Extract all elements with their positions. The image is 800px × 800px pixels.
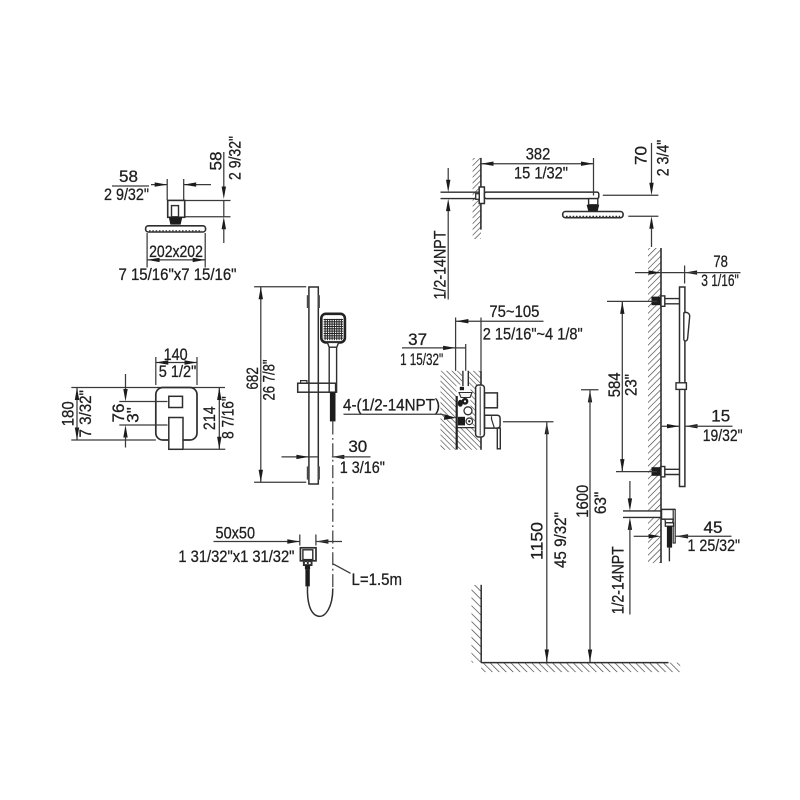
svg-text:58: 58 <box>119 167 138 186</box>
reference line (valve plate bottom) <box>71 439 156 441</box>
valve handle lever (pointing down) <box>497 428 500 449</box>
rain shower head (side view) <box>563 212 623 218</box>
hand shower on bar (side view) <box>684 312 690 341</box>
top bracket of slide bar (side) <box>652 296 680 306</box>
dimension 382 (arm length) <box>481 145 594 196</box>
wall corner at floor (hatched) <box>472 585 482 663</box>
svg-text:2 9/32": 2 9/32" <box>226 136 245 180</box>
elbow hose connector <box>665 519 674 526</box>
svg-text:78: 78 <box>713 252 728 271</box>
label 1/2-14NPT (shower arm thread) <box>430 168 450 300</box>
hose line below elbow <box>668 548 670 562</box>
wall section with concealed valve (hatched) <box>441 371 482 450</box>
svg-text:202x202: 202x202 <box>149 242 203 261</box>
svg-text:4-(1/2-14NPT): 4-(1/2-14NPT) <box>343 396 440 415</box>
valve trim plate (edge-on) <box>476 385 485 437</box>
outlet hose connector <box>304 561 312 566</box>
slide bar (side view) <box>680 287 685 487</box>
dimension 58 vertical (head arm height) <box>185 136 245 243</box>
slide bar (front view) <box>309 287 318 484</box>
label 4-(1/2-14NPT) (valve ports thread) <box>343 396 456 420</box>
svg-text:75~105: 75~105 <box>489 302 539 321</box>
hand shower neck <box>327 342 338 347</box>
hand shower head (front view) <box>321 314 345 343</box>
svg-text:7 3/32": 7 3/32" <box>76 390 95 438</box>
svg-text:382: 382 <box>526 145 551 164</box>
svg-text:2 3/4": 2 3/4" <box>654 140 673 177</box>
svg-text:1 25/32": 1 25/32" <box>688 536 741 555</box>
dimension 214 (plate+handle height) <box>183 388 238 450</box>
dimension 202x202 (head size) <box>119 233 237 284</box>
svg-text:3 1/16": 3 1/16" <box>701 271 739 290</box>
svg-text:5 1/2": 5 1/2" <box>159 362 197 381</box>
hose end fitting (black) <box>305 569 309 586</box>
dimension 584 (bracket spacing) <box>605 301 657 471</box>
dimension 45 (elbow projection) <box>634 518 740 555</box>
svg-text:2 15/16"~4 1/8": 2 15/16"~4 1/8" <box>483 325 583 344</box>
slider bracket (side view) <box>676 383 686 390</box>
label 1/2-14NPT (outlet thread) <box>609 481 633 615</box>
mixer outlet port (front view) <box>169 396 183 407</box>
dimension 1150 (valve height) <box>503 422 570 662</box>
svg-text:180: 180 <box>59 401 78 426</box>
svg-text:214: 214 <box>200 406 219 430</box>
svg-text:30: 30 <box>348 437 367 456</box>
dimension 30 (hose offset) <box>282 437 385 477</box>
svg-text:1 31/32"x1 31/32": 1 31/32"x1 31/32" <box>178 547 294 566</box>
ceiling mount arm of rain shower head <box>168 200 185 217</box>
rain shower head plate (front view) <box>146 226 206 232</box>
mixer handle (front view) <box>169 418 183 450</box>
dimension 180 (plate height) <box>59 388 96 441</box>
dimension 70 (head drop height) <box>603 140 673 247</box>
hand shower hose loop <box>307 586 332 616</box>
dimension 58 horizontal (head arm offset) <box>104 167 211 204</box>
hose end at elbow (black) <box>667 526 672 547</box>
svg-text:58: 58 <box>207 152 226 171</box>
svg-text:50x50: 50x50 <box>216 524 256 543</box>
slider bracket on slide bar <box>298 381 336 393</box>
outlet elbow (side view) <box>662 509 676 543</box>
supply pipe through wall (1/2-14NPT) <box>441 192 480 198</box>
dimension 15 (bar diameter) <box>661 407 743 445</box>
svg-text:23": 23" <box>622 374 641 396</box>
svg-text:19/32": 19/32" <box>703 426 743 445</box>
svg-text:1/2-14NPT: 1/2-14NPT <box>430 231 449 300</box>
svg-text:37: 37 <box>408 330 427 349</box>
wall section (right, side view) <box>646 248 661 563</box>
mixer trim plate (front view) <box>156 388 197 441</box>
svg-text:70: 70 <box>632 146 651 165</box>
svg-text:1600: 1600 <box>573 485 592 518</box>
svg-text:45 9/32": 45 9/32" <box>551 512 570 568</box>
dimension 682 (slide bar length) <box>243 287 306 483</box>
valve handle (side view) <box>485 415 501 428</box>
svg-text:1 3/16": 1 3/16" <box>340 458 385 477</box>
svg-text:8 7/16": 8 7/16" <box>219 396 238 439</box>
valve body cross-section details <box>457 387 475 450</box>
label L=1.5m (hose length) <box>333 564 402 589</box>
bottom bracket of slide bar (side) <box>652 467 680 477</box>
svg-text:63": 63" <box>591 492 610 515</box>
svg-text:2 9/32": 2 9/32" <box>104 185 149 204</box>
hose centerline (dash-dot) <box>332 422 334 589</box>
dimension 76 (port to handle) <box>109 374 168 448</box>
wall section (top right, side view) <box>473 158 481 239</box>
svg-text:L=1.5m: L=1.5m <box>352 570 403 589</box>
hand shower handle tube <box>329 347 336 392</box>
floor line (hatched) <box>481 663 680 673</box>
swivel joint (black) of rain shower head <box>169 217 183 224</box>
extension lines for valve dimensions <box>456 318 481 371</box>
dimension 140 (plate width) <box>156 345 197 385</box>
hose nut (black) <box>305 565 310 569</box>
ball joint of shower arm <box>587 199 600 212</box>
svg-text:15 1/32": 15 1/32" <box>514 164 568 183</box>
hand shower hose connector (black) <box>330 392 336 421</box>
dimension 1600 (outlet height) <box>573 390 610 662</box>
svg-text:1150: 1150 <box>527 522 546 560</box>
supply pipe to outlet elbow <box>623 511 662 518</box>
wall supply outlet (front view) <box>300 548 316 561</box>
slide bar mounting bracket marks <box>307 295 320 479</box>
valve outlet port (side view) <box>485 393 498 408</box>
svg-text:26 7/8": 26 7/8" <box>260 360 279 401</box>
dimension 75~105 (wall embed range) <box>456 302 583 343</box>
svg-text:3": 3" <box>123 407 142 423</box>
reference line (valve plate top) <box>71 387 225 389</box>
svg-text:1 15/32": 1 15/32" <box>400 350 443 369</box>
dimension 37 (valve depth) <box>400 330 466 369</box>
dimension 50x50 (wall outlet size) <box>178 524 342 566</box>
dimension 78 (bar offset from wall) <box>635 252 741 290</box>
svg-text:15: 15 <box>711 407 730 426</box>
svg-text:1/2-14NPT: 1/2-14NPT <box>609 546 628 614</box>
shower arm (horizontal bar) <box>484 192 598 199</box>
svg-text:140: 140 <box>164 345 188 364</box>
svg-text:7 15/16"x7 15/16": 7 15/16"x7 15/16" <box>119 265 237 284</box>
svg-text:45: 45 <box>704 518 723 537</box>
shower arm wall flange <box>476 187 485 204</box>
